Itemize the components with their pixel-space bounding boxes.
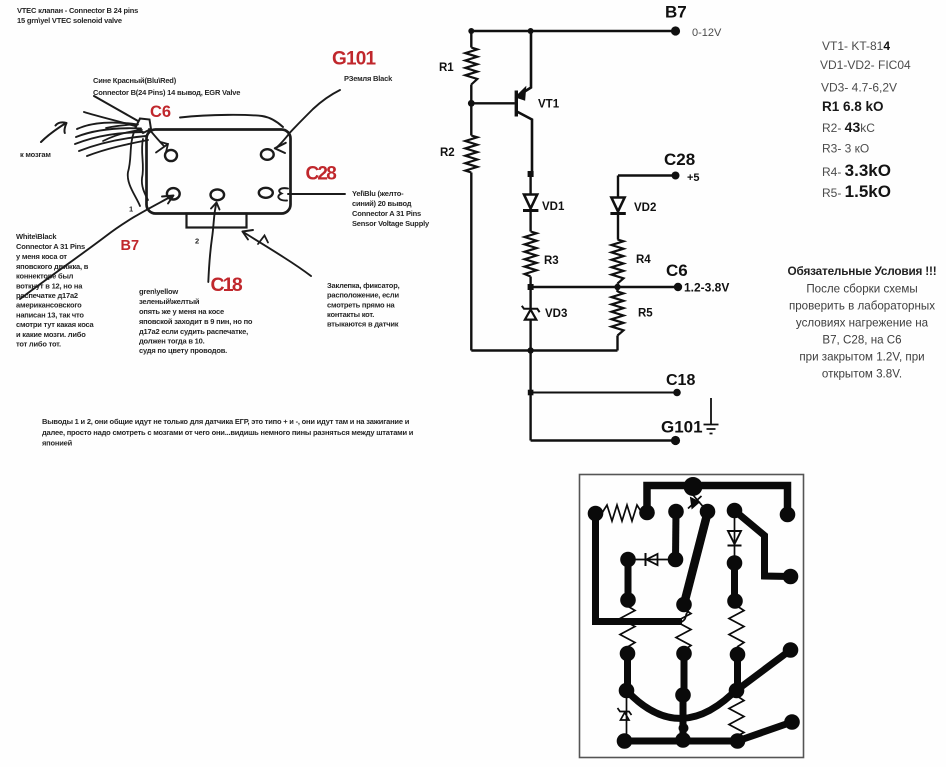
wire C18 rail	[531, 392, 677, 394]
svg-text:воткнут в 12, но на: воткнут в 12, но на	[16, 281, 83, 290]
trace col2 lower	[625, 560, 632, 601]
zener VD3	[522, 306, 540, 312]
svg-text:R2: R2	[440, 147, 455, 159]
wire R5 to bottom rail	[616, 336, 618, 351]
PCB	[580, 475, 804, 758]
junction dot left-top	[468, 28, 474, 34]
RIGHT-LIST	[788, 39, 937, 381]
diode VD2	[611, 198, 624, 212]
svg-text:+5: +5	[687, 172, 700, 184]
node C6 dot	[674, 283, 682, 291]
pads mid	[620, 552, 636, 568]
svg-text:G101: G101	[661, 418, 703, 437]
svg-text:условиях нагрежение на: условиях нагрежение на	[796, 317, 929, 330]
wire top to R1	[470, 31, 472, 48]
pcb resistor v2	[676, 609, 691, 650]
svg-text:Connector A 31 Pins: Connector A 31 Pins	[352, 209, 421, 218]
node C28 dot	[672, 172, 680, 180]
svg-text:После сборки схемы: После сборки схемы	[806, 283, 917, 296]
trace row B-C col1	[624, 654, 631, 691]
svg-text:контакты кот.: контакты кот.	[327, 310, 374, 319]
wire C6 rail	[531, 286, 678, 288]
svg-text:В7, С28, на С6: В7, С28, на С6	[822, 334, 901, 347]
svg-text:далее, просто надо смотреть с: далее, просто надо смотреть с мозгами от…	[42, 428, 414, 437]
node C18 dot	[673, 389, 681, 397]
wire VD2 to R4	[617, 214, 619, 240]
C18 pointer wavy line	[208, 203, 216, 283]
svg-text:gren\yellow: gren\yellow	[139, 287, 178, 296]
trace row B-C col3	[734, 655, 741, 691]
trace top rail	[647, 486, 788, 514]
node B7 dot	[671, 26, 680, 35]
svg-text:C28: C28	[306, 164, 337, 185]
svg-text:Заклепка, фиксатор,: Заклепка, фиксатор,	[327, 281, 400, 290]
svg-text:White\Black: White\Black	[16, 232, 57, 241]
svg-text:0-12V: 0-12V	[692, 27, 722, 39]
pads row C	[619, 683, 635, 699]
knot blob	[136, 119, 152, 134]
wire R4 to C6 rail	[616, 284, 618, 288]
wire VD1 to R3	[529, 211, 531, 232]
hole top-left	[165, 150, 177, 161]
resistor R4	[612, 240, 624, 284]
pads row B	[620, 646, 636, 662]
svg-text:VD3: VD3	[545, 308, 567, 320]
svg-text:к мозгам: к мозгам	[20, 150, 51, 159]
svg-text:Connector B(24 Pins) 14 вывод,: Connector B(24 Pins) 14 вывод, EGR Valve	[93, 88, 240, 97]
node G101 dot	[671, 436, 680, 445]
svg-text:C18: C18	[666, 372, 695, 389]
resistor R5	[612, 292, 624, 336]
pad top	[684, 477, 703, 496]
trace right elbow	[735, 511, 791, 577]
resistor R2	[465, 136, 477, 173]
svg-text:C18: C18	[211, 274, 243, 296]
transistor VT1	[515, 91, 518, 117]
pcb resistor horizontal	[602, 505, 642, 521]
svg-text:у меня коса от: у меня коса от	[16, 252, 67, 261]
svg-text:яповского движка, в: яповского движка, в	[16, 262, 89, 271]
trace left rail	[596, 514, 683, 622]
wire top rail	[471, 30, 676, 32]
svg-text:и какие мозги. либо: и какие мозги. либо	[16, 330, 86, 339]
svg-text:R2- 43kC: R2- 43kC	[822, 119, 875, 135]
svg-text:R1: R1	[439, 62, 454, 74]
svg-text:VT1- KT-814: VT1- KT-814	[822, 39, 890, 53]
svg-text:B7: B7	[665, 3, 687, 22]
arrow into top-left hole	[149, 129, 164, 146]
svg-text:VD1-VD2- FIC04: VD1-VD2- FIC04	[820, 58, 911, 72]
pcb diode right	[734, 518, 736, 563]
trace col2	[672, 512, 680, 560]
wire emitter to VD1	[529, 174, 531, 194]
svg-text:смотреть прямо на: смотреть прямо на	[327, 300, 396, 309]
wire junction to R2	[470, 103, 472, 135]
yelblu hook	[278, 188, 288, 200]
yelblu pointer line	[288, 193, 345, 195]
svg-text:должен тогда в 10.: должен тогда в 10.	[139, 337, 205, 346]
svg-text:G101: G101	[332, 49, 377, 70]
svg-text:R3- 3 кО: R3- 3 кО	[822, 142, 869, 156]
trace arc	[627, 687, 740, 718]
trace row B-C col2	[681, 654, 688, 696]
svg-text:японией: японией	[42, 439, 73, 448]
svg-text:расположение, если: расположение, если	[327, 291, 399, 300]
svg-text:опять же у меня на косе: опять же у меня на косе	[139, 307, 224, 316]
svg-text:Yel\Blu (желто-: Yel\Blu (желто-	[352, 189, 404, 198]
svg-text:Обязательные Условия !!!: Обязательные Условия !!!	[788, 264, 937, 278]
pcb border	[580, 475, 804, 758]
hole bottom-middle	[211, 189, 225, 200]
wire main vertical down	[529, 351, 531, 441]
trace bottom rail	[625, 738, 738, 745]
wire C6 rail to R5	[616, 287, 618, 292]
resistor R1	[465, 48, 477, 85]
svg-text:смотри тут какая коса: смотри тут какая коса	[16, 320, 95, 329]
svg-text:американсовского: американсовского	[16, 301, 82, 310]
wire VD3 to bottom rail	[529, 320, 531, 351]
svg-text:проверить в лабораторных: проверить в лабораторных	[789, 300, 935, 313]
pcb trace hook	[682, 611, 690, 622]
pcb resistor v4	[729, 696, 744, 736]
wire base	[471, 102, 515, 104]
pcb diode top small	[693, 495, 706, 510]
trace diagonal right-mid	[739, 650, 791, 689]
pad junction arc	[679, 723, 689, 733]
hole bottom-right	[259, 188, 273, 198]
trace mid vertical bottom	[680, 695, 687, 740]
B7 pointer line	[20, 197, 171, 300]
ground symbol	[704, 398, 719, 434]
svg-text:C28: C28	[664, 150, 695, 169]
junction square C18	[528, 390, 534, 396]
svg-text:Сине Красный(Blu\Red): Сине Красный(Blu\Red)	[93, 76, 177, 85]
svg-text:открытом 3.8V.: открытом 3.8V.	[822, 368, 902, 381]
pcb resistor v1	[620, 606, 635, 647]
wire from note to knot	[94, 96, 138, 121]
wire R1 to junction	[470, 85, 472, 104]
svg-text:VD2: VD2	[634, 202, 656, 214]
wire bundle	[84, 112, 135, 126]
wavy wire along left edge	[128, 132, 140, 206]
svg-text:15 grn\yel VTEC solenoid valve: 15 grn\yel VTEC solenoid valve	[17, 16, 122, 25]
trace bottom diagonal	[738, 722, 793, 741]
arrow k-mozgam	[41, 123, 66, 142]
svg-text:Выводы 1 и 2, они общие идут н: Выводы 1 и 2, они общие идут не только д…	[42, 417, 410, 426]
svg-text:C6: C6	[666, 261, 688, 280]
resistor R3	[525, 232, 537, 277]
svg-text:при закрытом 1.2V, при: при закрытом 1.2V, при	[799, 351, 924, 364]
svg-text:втыкаются в датчик: втыкаются в датчик	[327, 320, 399, 329]
wire R3 to C6 rail	[529, 277, 531, 288]
TEXTS-TOPLEFT	[16, 6, 430, 448]
svg-text:Sensor Voltage Supply: Sensor Voltage Supply	[352, 219, 430, 228]
connector body	[147, 130, 291, 214]
svg-text:Connector A 31 Pins: Connector A 31 Pins	[16, 242, 85, 251]
svg-text:1: 1	[129, 205, 133, 214]
wire G101 rail	[531, 439, 676, 442]
svg-text:судя по цвету проводов.: судя по цвету проводов.	[139, 346, 227, 355]
junction square emitter	[528, 171, 534, 177]
wire bottom rail	[471, 349, 617, 351]
diode VD1	[524, 195, 537, 209]
hole bottom-left	[167, 188, 180, 199]
pads row A	[588, 506, 604, 522]
wire C28 rail	[618, 174, 676, 176]
svg-text:тот либо тот.: тот либо тот.	[16, 340, 61, 349]
C6 pointer line over box	[180, 115, 283, 127]
svg-text:написан 13, так что: написан 13, так что	[16, 310, 84, 319]
pcb diode mid-left	[628, 559, 676, 561]
svg-text:коннекторе был: коннекторе был	[16, 272, 74, 281]
svg-text:VD1: VD1	[542, 201, 565, 213]
svg-text:яповской заходит в 9 пин, но п: яповской заходит в 9 пин, но по	[139, 317, 253, 326]
trace big diagonal	[684, 513, 708, 604]
junction dot collector-top	[528, 28, 534, 34]
svg-text:зеленый\желтый: зеленый\желтый	[139, 297, 200, 306]
svg-text:VT1: VT1	[538, 99, 560, 111]
trace right col	[731, 563, 738, 601]
junction dot bottom rail	[527, 347, 533, 353]
wire R2 down to bottom rail	[470, 173, 472, 351]
svg-text:VTEC клапан - Connector B 24 p: VTEC клапан - Connector B 24 pins	[17, 6, 138, 15]
svg-text:1.2-3.8V: 1.2-3.8V	[684, 281, 729, 295]
svg-text:B7: B7	[121, 238, 140, 254]
G101 pointer curve	[276, 90, 340, 148]
svg-text:д17а2 если судить распечатке,: д17а2 если судить распечатке,	[139, 327, 248, 336]
junction dot R3/VD3	[528, 284, 534, 290]
pcb zener small	[626, 691, 628, 742]
svg-text:R1 6.8 kO: R1 6.8 kO	[822, 99, 884, 114]
wire C6 to VD3	[529, 287, 531, 309]
hole top-right	[261, 149, 274, 160]
svg-text:РЗемля Black: РЗемля Black	[344, 74, 393, 83]
svg-text:R3: R3	[544, 255, 559, 267]
svg-text:R5: R5	[638, 308, 653, 320]
svg-text:синий) 20 вывод: синий) 20 вывод	[352, 199, 412, 208]
junction dot R4/R5	[614, 284, 620, 290]
SCHEMATIC	[439, 3, 729, 446]
CONNECTOR-DRAWING	[20, 90, 345, 299]
junction dot base	[468, 100, 475, 107]
bottom tab	[187, 214, 247, 228]
svg-text:C6: C6	[150, 103, 171, 121]
svg-text:VD3- 4.7-6,2V: VD3- 4.7-6,2V	[821, 81, 897, 95]
pads bottom row	[617, 733, 633, 749]
wire C28 to VD2	[617, 176, 619, 198]
zaklepka arrow	[243, 232, 312, 277]
pcb resistor v3	[729, 606, 744, 647]
svg-text:2: 2	[195, 237, 199, 246]
svg-text:R4: R4	[636, 254, 651, 266]
